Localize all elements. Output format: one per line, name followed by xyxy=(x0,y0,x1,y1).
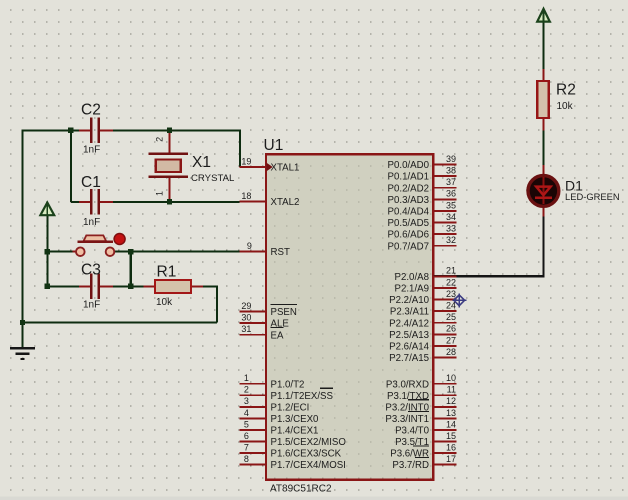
svg-text:RST: RST xyxy=(271,247,290,258)
svg-text:C1: C1 xyxy=(81,174,101,191)
svg-text:18: 18 xyxy=(241,191,251,201)
svg-text:2: 2 xyxy=(155,137,165,142)
svg-text:23: 23 xyxy=(446,289,456,299)
svg-text:EA: EA xyxy=(271,330,284,341)
svg-text:6: 6 xyxy=(244,431,249,441)
svg-text:P3.7/RD: P3.7/RD xyxy=(392,460,429,471)
svg-text:P2.5/A13: P2.5/A13 xyxy=(389,330,429,341)
svg-text:4: 4 xyxy=(244,408,249,418)
svg-text:19: 19 xyxy=(241,156,251,166)
svg-text:P2.6/A14: P2.6/A14 xyxy=(389,342,429,353)
svg-text:P2.4/A12: P2.4/A12 xyxy=(389,318,429,329)
svg-text:22: 22 xyxy=(446,277,456,287)
svg-text:R2: R2 xyxy=(556,82,576,99)
svg-text:2: 2 xyxy=(244,385,249,395)
svg-text:33: 33 xyxy=(446,224,456,234)
svg-text:C3: C3 xyxy=(81,262,101,279)
svg-text:U1: U1 xyxy=(264,137,284,154)
svg-text:XTAL1: XTAL1 xyxy=(271,163,300,174)
svg-text:P2.1/A9: P2.1/A9 xyxy=(395,284,429,295)
svg-text:3: 3 xyxy=(244,396,249,406)
svg-text:13: 13 xyxy=(446,408,456,418)
svg-text:1nF: 1nF xyxy=(83,217,100,228)
svg-text:LED-GREEN: LED-GREEN xyxy=(565,191,620,202)
svg-text:31: 31 xyxy=(241,324,251,334)
svg-text:P0.5/AD5: P0.5/AD5 xyxy=(388,218,429,229)
svg-text:P0.0/AD0: P0.0/AD0 xyxy=(388,160,430,171)
svg-text:21: 21 xyxy=(446,266,456,276)
svg-text:P2.7/A15: P2.7/A15 xyxy=(389,353,429,364)
svg-text:P1.2/ECI: P1.2/ECI xyxy=(271,402,310,413)
svg-text:P3.0/RXD: P3.0/RXD xyxy=(386,379,429,390)
svg-text:32: 32 xyxy=(446,235,456,245)
svg-text:27: 27 xyxy=(446,335,456,345)
svg-text:P3.4/T0: P3.4/T0 xyxy=(395,426,430,437)
svg-text:26: 26 xyxy=(446,324,456,334)
svg-text:29: 29 xyxy=(241,301,251,311)
svg-text:P1.5/CEX2/MISO: P1.5/CEX2/MISO xyxy=(271,437,347,448)
svg-text:11: 11 xyxy=(447,385,456,395)
svg-text:34: 34 xyxy=(446,212,456,222)
svg-text:39: 39 xyxy=(446,154,456,164)
svg-text:7: 7 xyxy=(244,442,249,452)
svg-text:R1: R1 xyxy=(157,264,177,281)
svg-text:17: 17 xyxy=(446,454,456,464)
svg-text:P1.4/CEX1: P1.4/CEX1 xyxy=(271,426,319,437)
svg-text:10: 10 xyxy=(446,373,456,383)
svg-text:16: 16 xyxy=(446,442,456,452)
svg-text:PSEN: PSEN xyxy=(271,307,297,318)
svg-text:10k: 10k xyxy=(557,101,574,112)
svg-text:P0.3/AD3: P0.3/AD3 xyxy=(388,195,429,206)
svg-text:1nF: 1nF xyxy=(83,300,100,311)
svg-text:CRYSTAL: CRYSTAL xyxy=(191,173,235,184)
svg-text:C2: C2 xyxy=(81,102,101,119)
svg-text:P0.1/AD1: P0.1/AD1 xyxy=(388,172,429,183)
svg-text:P0.4/AD4: P0.4/AD4 xyxy=(388,207,430,218)
svg-text:36: 36 xyxy=(446,189,456,199)
svg-text:P1.3/CEX0: P1.3/CEX0 xyxy=(271,414,320,425)
svg-text:8: 8 xyxy=(244,454,249,464)
svg-text:AT89C51RC2: AT89C51RC2 xyxy=(270,484,332,495)
svg-text:28: 28 xyxy=(446,347,456,357)
svg-text:P0.6/AD6: P0.6/AD6 xyxy=(388,230,429,241)
svg-text:1nF: 1nF xyxy=(83,145,100,156)
svg-text:P1.1/T2EX/SS: P1.1/T2EX/SS xyxy=(271,391,334,402)
svg-text:1: 1 xyxy=(155,191,165,196)
svg-text:9: 9 xyxy=(247,241,252,251)
svg-text:38: 38 xyxy=(446,166,456,176)
svg-text:P1.0/T2: P1.0/T2 xyxy=(271,379,305,390)
svg-text:5: 5 xyxy=(244,419,249,429)
svg-text:10k: 10k xyxy=(156,297,173,308)
svg-text:P2.2/A10: P2.2/A10 xyxy=(389,295,429,306)
svg-text:P0.2/AD2: P0.2/AD2 xyxy=(388,183,429,194)
svg-text:25: 25 xyxy=(446,312,456,322)
svg-text:12: 12 xyxy=(446,396,456,406)
svg-text:P0.7/AD7: P0.7/AD7 xyxy=(388,241,429,252)
svg-text:1: 1 xyxy=(244,373,249,383)
svg-text:P2.0/A8: P2.0/A8 xyxy=(395,272,429,283)
svg-text:30: 30 xyxy=(241,313,251,323)
svg-text:P1.6/CEX3/SCK: P1.6/CEX3/SCK xyxy=(271,449,342,460)
svg-text:P2.3/A11: P2.3/A11 xyxy=(390,307,429,318)
svg-text:P1.7/CEX4/MOSI: P1.7/CEX4/MOSI xyxy=(271,460,346,471)
svg-text:15: 15 xyxy=(446,431,456,441)
svg-text:14: 14 xyxy=(446,419,456,429)
svg-text:XTAL2: XTAL2 xyxy=(271,197,300,208)
svg-text:X1: X1 xyxy=(192,154,211,171)
svg-text:37: 37 xyxy=(446,177,456,187)
svg-text:35: 35 xyxy=(446,200,456,210)
svg-text:P3.3/INT1: P3.3/INT1 xyxy=(385,414,429,425)
